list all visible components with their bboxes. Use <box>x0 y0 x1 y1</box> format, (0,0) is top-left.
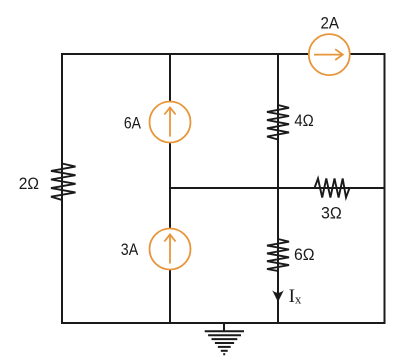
wire bottom <box>61 322 386 324</box>
svg-text:Ix: Ix <box>289 286 302 307</box>
svg-text:4Ω: 4Ω <box>294 111 313 130</box>
current source 2A <box>309 34 350 75</box>
current source 3A <box>150 229 191 270</box>
resistor R 4ohm zigzag <box>267 105 289 140</box>
svg-text:2Ω: 2Ω <box>19 174 39 193</box>
ground <box>205 323 244 354</box>
wire middle branch A <box>169 54 171 323</box>
svg-text:6A: 6A <box>124 114 142 133</box>
current arrow Ix <box>272 290 284 302</box>
svg-text:2A: 2A <box>321 14 340 33</box>
wire middle branch B <box>277 54 279 323</box>
resistor R 3ohm zigzag (horizontal) <box>315 179 350 198</box>
resistor R 2ohm zigzag <box>51 164 76 201</box>
current source 6A <box>150 102 191 143</box>
resistor R 6ohm zigzag <box>267 239 289 271</box>
wire right <box>384 53 386 324</box>
wire middle horizontal <box>170 187 386 189</box>
wire left <box>61 53 63 324</box>
svg-text:3A: 3A <box>121 240 139 259</box>
svg-text:3Ω: 3Ω <box>321 204 342 223</box>
svg-text:6Ω: 6Ω <box>294 245 315 264</box>
wire top <box>61 53 386 55</box>
